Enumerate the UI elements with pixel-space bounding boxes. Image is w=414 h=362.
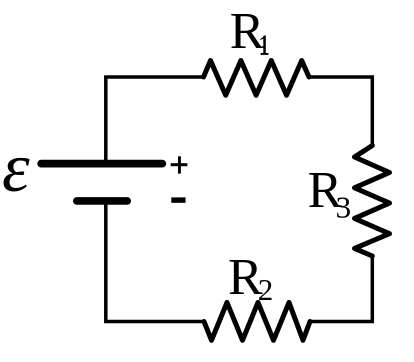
svg-text:2: 2 [258,272,274,307]
svg-text:3: 3 [336,190,352,225]
svg-text:R: R [230,3,265,60]
svg-text:ε: ε [2,130,30,207]
